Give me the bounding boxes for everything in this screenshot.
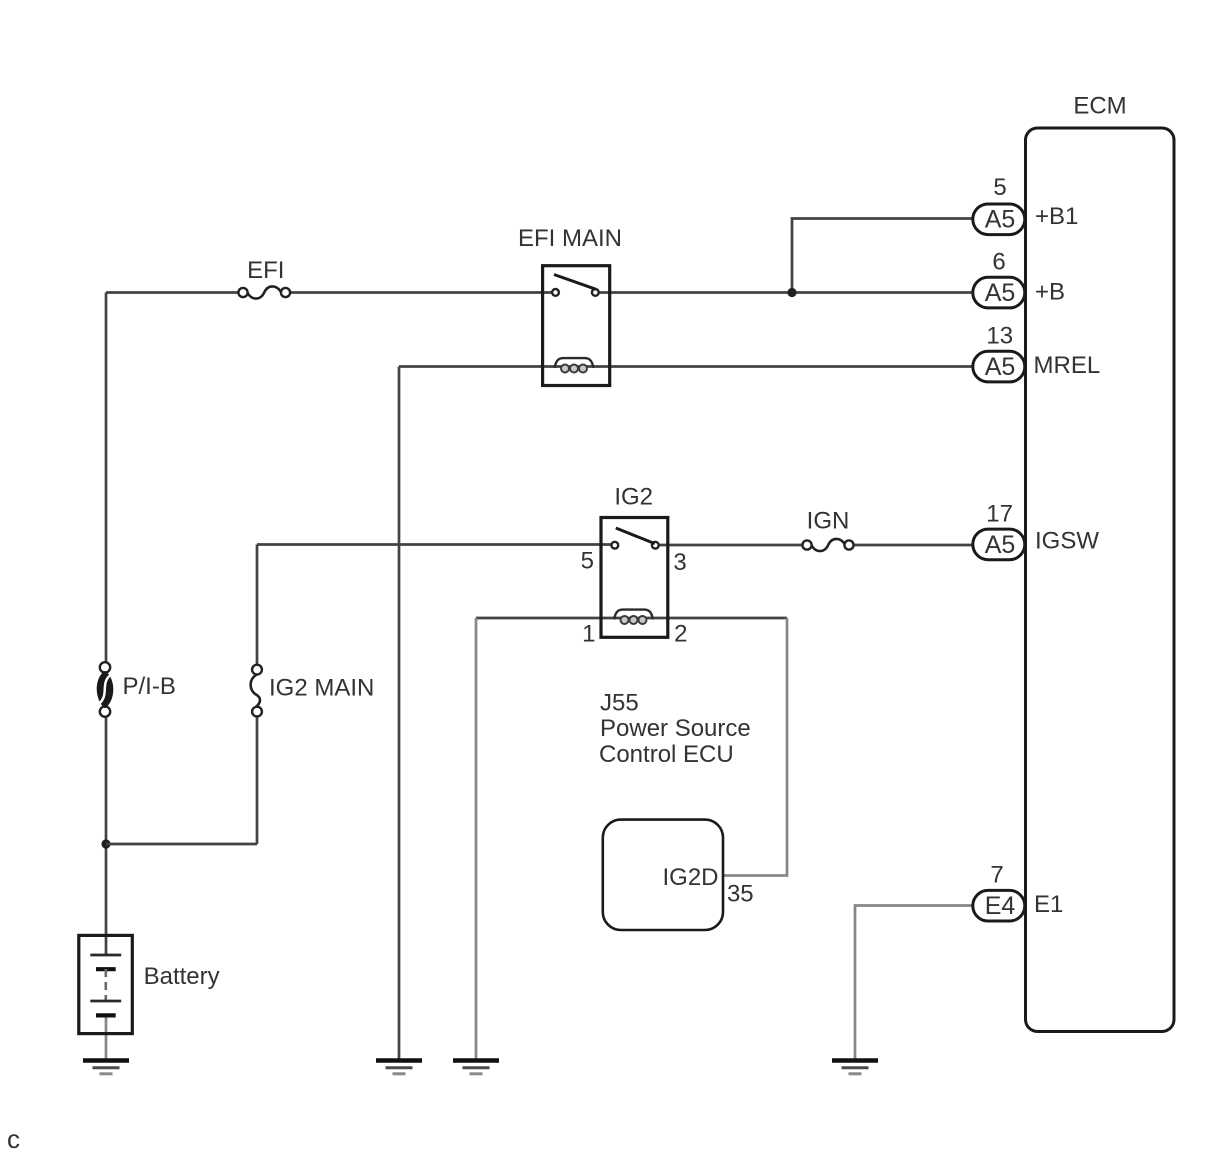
svg-text:+B: +B <box>1035 279 1065 306</box>
svg-text:E1: E1 <box>1034 891 1063 918</box>
svg-text:3: 3 <box>673 549 686 576</box>
svg-text:c: c <box>7 1124 20 1154</box>
svg-text:A5: A5 <box>985 279 1016 307</box>
svg-text:A5: A5 <box>985 206 1016 234</box>
svg-text:17: 17 <box>986 501 1013 528</box>
svg-text:+B1: +B1 <box>1035 203 1078 230</box>
svg-text:IG2 MAIN: IG2 MAIN <box>269 675 374 702</box>
svg-text:2: 2 <box>674 621 687 648</box>
svg-text:7: 7 <box>990 862 1003 889</box>
svg-text:13: 13 <box>986 323 1013 350</box>
svg-text:A5: A5 <box>985 531 1016 559</box>
svg-text:EFI MAIN: EFI MAIN <box>518 225 622 252</box>
svg-text:Battery: Battery <box>144 963 220 990</box>
svg-text:Power Source: Power Source <box>600 715 751 742</box>
svg-text:ECM: ECM <box>1073 93 1126 120</box>
svg-text:EFI: EFI <box>247 257 284 284</box>
svg-text:IG2: IG2 <box>614 484 653 511</box>
svg-text:6: 6 <box>992 249 1005 276</box>
svg-text:35: 35 <box>727 881 754 908</box>
svg-text:IGN: IGN <box>807 508 850 535</box>
svg-text:IGSW: IGSW <box>1035 528 1099 555</box>
svg-text:5: 5 <box>993 174 1006 201</box>
svg-text:Control ECU: Control ECU <box>599 741 734 768</box>
svg-text:A5: A5 <box>985 353 1016 381</box>
svg-text:E4: E4 <box>985 892 1016 920</box>
svg-text:1: 1 <box>582 621 595 648</box>
svg-text:5: 5 <box>581 548 594 575</box>
svg-text:J55: J55 <box>600 690 639 717</box>
svg-text:IG2D: IG2D <box>662 864 718 891</box>
svg-text:MREL: MREL <box>1034 352 1101 379</box>
svg-text:P/I-B: P/I-B <box>123 673 176 700</box>
